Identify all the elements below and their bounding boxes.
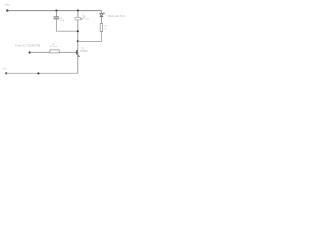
wire ground rail <box>6 72 78 74</box>
node sensor input label <box>15 43 40 47</box>
resistor R1 label <box>50 44 57 48</box>
svg-text:R2: R2 <box>104 26 108 28</box>
node +9V label <box>5 2 11 6</box>
wire collector column (buzzer bottom to ground rail) <box>77 20 79 73</box>
buzzer BZ1 label <box>85 19 90 21</box>
svg-text:47 ohm: 47 ohm <box>50 46 57 48</box>
node 0V label <box>3 67 7 71</box>
svg-text:RL1: RL1 <box>85 19 90 21</box>
svg-text:1K: 1K <box>104 28 107 30</box>
junction top rail / C4 <box>55 10 57 12</box>
svg-text:RED LED 5mm: RED LED 5mm <box>108 15 125 18</box>
wire LED to resistor R2 <box>100 17 102 24</box>
wire base lead right <box>59 51 76 53</box>
wire C4 top lead <box>55 11 57 17</box>
wire top rail <box>7 10 101 12</box>
buzzer contact marks <box>81 15 84 20</box>
svg-text:+9v: +9v <box>5 2 11 6</box>
wire C4 bottom lead and link to node A <box>56 19 77 31</box>
junction node B (LED branch link / collector column) <box>77 40 79 42</box>
node 0V terminal dot <box>5 72 7 74</box>
junction ground rail <box>37 72 39 74</box>
capacitor C4 value label <box>59 18 64 22</box>
LED D1 label <box>108 15 125 18</box>
buzzer BZ1 box <box>75 17 80 20</box>
resistor R2 label <box>104 26 108 31</box>
LED D1 <box>100 12 106 17</box>
junction top rail / buzzer BZ1 <box>77 10 79 12</box>
resistor R1 <box>50 50 59 53</box>
node sensor input terminal dot <box>29 51 31 53</box>
wire LED branch bottom link <box>78 31 102 41</box>
svg-text:From IC TSOP1738: From IC TSOP1738 <box>15 43 40 47</box>
transistor T1 label <box>80 47 88 53</box>
resistor R2 <box>100 23 103 31</box>
wire buzzer top lead <box>77 11 79 18</box>
wire base lead left <box>30 51 50 53</box>
transistor T1 <box>77 50 80 57</box>
svg-text:(104): (104) <box>59 20 64 22</box>
junction node A (C4 link / collector column) <box>77 30 79 32</box>
capacitor C4 <box>54 17 60 19</box>
svg-text:0 v: 0 v <box>3 67 7 71</box>
wire right branch top corner <box>100 11 102 14</box>
svg-text:BC548: BC548 <box>80 50 88 53</box>
node +9V terminal dot <box>6 9 8 11</box>
